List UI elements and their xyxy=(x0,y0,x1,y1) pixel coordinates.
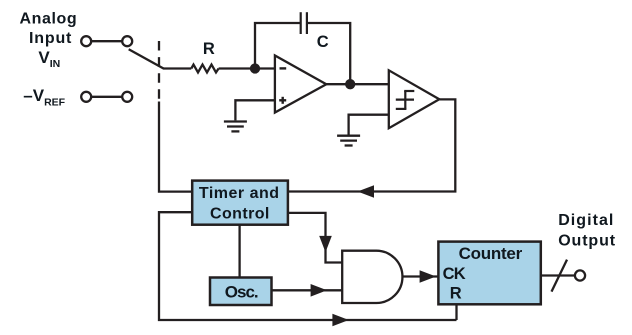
wire counter output xyxy=(541,274,575,276)
svg-text:R: R xyxy=(450,284,462,302)
resistor R xyxy=(191,65,218,73)
ground comparator xyxy=(337,136,360,146)
node integrator input xyxy=(251,65,259,73)
arrowhead down into AND gate xyxy=(319,236,332,252)
capacitor C xyxy=(301,12,307,34)
wire integrator output xyxy=(326,83,389,85)
svg-text:Analog: Analog xyxy=(19,10,77,27)
wire feedback left xyxy=(255,23,300,69)
timer block xyxy=(192,181,288,225)
wire AND gate output to counter xyxy=(403,275,439,277)
svg-text:Input: Input xyxy=(29,30,72,47)
svg-text:Counter: Counter xyxy=(459,244,523,263)
oscillator block xyxy=(210,278,272,306)
svg-text:C: C xyxy=(317,33,329,51)
op-amp U1 xyxy=(275,56,326,113)
label Timer and Control xyxy=(199,185,280,223)
svg-text:–VREF: –VREF xyxy=(23,86,65,109)
switch control dashed wire xyxy=(158,41,160,104)
svg-text:R: R xyxy=(203,40,215,58)
wire comparator lower input xyxy=(349,115,389,135)
svg-text:Output: Output xyxy=(558,233,616,250)
wire resistor to op-amp inverting input xyxy=(219,67,275,69)
svg-text:Timer and: Timer and xyxy=(199,185,280,202)
bus slash xyxy=(552,260,568,292)
svg-text:Osc.: Osc. xyxy=(225,282,258,301)
node integrator output xyxy=(346,80,354,88)
wire counter reset xyxy=(455,304,457,320)
wire comparator output to timer xyxy=(288,99,455,191)
ground op-amp xyxy=(224,122,247,132)
svg-text:Control: Control xyxy=(210,206,270,223)
wire timer left to bottom bus xyxy=(159,212,457,320)
wire feedback right xyxy=(308,23,350,84)
switch SW1 xyxy=(129,49,164,68)
svg-text:VIN: VIN xyxy=(38,48,60,70)
arrowhead bottom bus xyxy=(332,314,348,327)
label Analog Input VIN xyxy=(19,10,77,70)
counter block xyxy=(438,242,540,305)
wire oscillator to AND gate xyxy=(272,289,343,291)
wire switch to resistor xyxy=(163,67,191,69)
wire switch control to timer xyxy=(159,102,192,192)
svg-text:Digital: Digital xyxy=(558,212,614,229)
input terminal VIN xyxy=(81,36,132,46)
reference terminal -VREF xyxy=(81,92,132,102)
arrowhead into timer xyxy=(358,185,375,198)
wire timer to oscillator xyxy=(238,225,240,278)
wire op-amp non-inverting input xyxy=(235,100,275,120)
AND gate xyxy=(342,251,402,303)
arrowhead gate to counter CK xyxy=(420,270,436,283)
output terminal xyxy=(575,270,585,280)
comparator U2 xyxy=(389,70,440,128)
svg-text:CK: CK xyxy=(443,265,466,283)
arrowhead oscillator to gate xyxy=(311,284,327,297)
wire timer to AND gate top input xyxy=(288,213,342,263)
label Digital Output xyxy=(558,212,616,250)
